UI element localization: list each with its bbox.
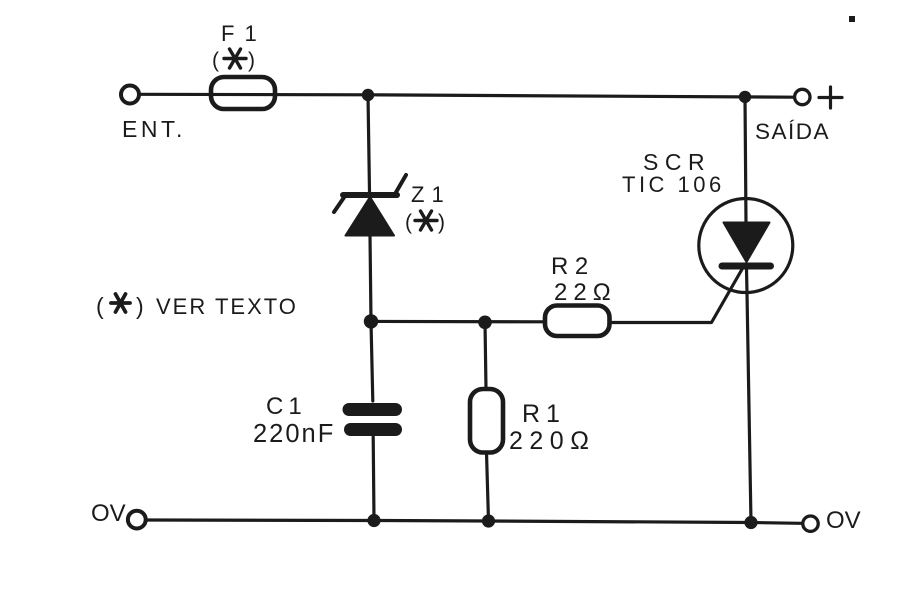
terminal OV left bbox=[128, 511, 146, 529]
svg-text:C1: C1 bbox=[266, 393, 307, 420]
wire SCR cathode down bbox=[747, 269, 752, 523]
stray mark top right bbox=[849, 16, 855, 22]
svg-text:(: ( bbox=[96, 293, 104, 319]
svg-text:OV: OV bbox=[826, 507, 861, 534]
svg-text:22Ω: 22Ω bbox=[554, 279, 617, 306]
node F (R1 bottom junction) bbox=[482, 514, 495, 527]
svg-text:R1: R1 bbox=[522, 400, 566, 428]
SCR U1 TIC106 bbox=[699, 199, 793, 293]
svg-text:(: ( bbox=[405, 211, 412, 234]
node A (top junction) bbox=[362, 89, 374, 101]
svg-text:): ) bbox=[438, 211, 445, 234]
svg-text:SAÍDA: SAÍDA bbox=[755, 119, 830, 144]
wire C1 branch bbox=[371, 321, 373, 401]
terminal ENT bbox=[121, 86, 139, 104]
svg-text:R2: R2 bbox=[551, 253, 595, 280]
svg-text:220Ω: 220Ω bbox=[509, 427, 595, 455]
wire zener to mid node bbox=[370, 235, 371, 321]
svg-text:ENT.: ENT. bbox=[122, 116, 186, 142]
wire zener branch down bbox=[368, 95, 370, 192]
wire bottom rail OV to OV bbox=[146, 520, 801, 523]
wire C1 to bottom rail bbox=[372, 437, 376, 521]
svg-text:(: ( bbox=[212, 49, 219, 72]
svg-text:220nF: 220nF bbox=[253, 420, 335, 448]
plus symbol bbox=[819, 87, 842, 108]
node E (C1 bottom junction) bbox=[367, 514, 380, 527]
svg-text:F1: F1 bbox=[221, 21, 267, 46]
svg-text:): ) bbox=[248, 49, 255, 72]
svg-text:TIC 106: TIC 106 bbox=[622, 172, 725, 197]
wire R2 to SCR gate bbox=[610, 264, 746, 323]
fuse F1 bbox=[211, 77, 275, 109]
svg-text:Z1: Z1 bbox=[411, 182, 451, 207]
capacitor C1 bbox=[349, 410, 396, 430]
note (*) VER TEXTO bbox=[96, 293, 298, 319]
resistor R1 bbox=[470, 389, 503, 453]
zener diode Z1 bbox=[334, 175, 406, 236]
wire R1 branch bbox=[485, 322, 486, 389]
terminal OV right bbox=[803, 516, 818, 531]
svg-text:): ) bbox=[136, 293, 144, 319]
node B (mid junction) bbox=[364, 314, 378, 328]
wire SCR anode from top rail bbox=[745, 97, 746, 223]
label (*) for Z1 bbox=[405, 211, 445, 234]
svg-text:VER TEXTO: VER TEXTO bbox=[156, 294, 298, 319]
wire R1 to bottom rail bbox=[487, 453, 489, 522]
wire mid node to R2 bbox=[371, 320, 545, 324]
resistor R2 bbox=[545, 306, 610, 337]
node C (R1 tap) bbox=[478, 316, 492, 330]
terminal + (SAIDA) bbox=[795, 89, 810, 104]
label (*) for F1 bbox=[212, 49, 255, 72]
wire top rail ENT to + bbox=[141, 94, 794, 97]
node D (anode junction on top rail) bbox=[739, 91, 751, 103]
node G (SCR cathode junction) bbox=[744, 516, 757, 529]
svg-text:OV: OV bbox=[91, 500, 126, 527]
